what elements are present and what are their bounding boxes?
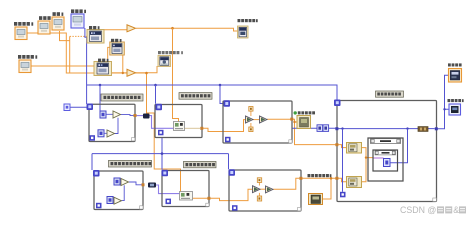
node after F1 bbox=[143, 114, 150, 119]
wire: F6 right tunnel to indicators bbox=[437, 75, 449, 129]
tunnel F6 left blue bbox=[335, 127, 338, 130]
F5 constant 1 bbox=[257, 178, 261, 183]
wire: triangle T2 to metronome bbox=[136, 66, 158, 73]
frame F6 corner notch bbox=[433, 198, 437, 201]
frame F2b corner notch bbox=[289, 140, 292, 143]
inner blue icon terminal bbox=[384, 159, 391, 167]
brown coercion node on F6 bus bbox=[418, 127, 428, 132]
iteration box F5 bbox=[232, 205, 238, 211]
label 数值3 bbox=[53, 12, 64, 16]
F3 triangle 2 bbox=[114, 197, 122, 204]
wire: F2b blue out to conversion pair bbox=[292, 127, 337, 129]
tunnel F6 left orange 2 bbox=[335, 177, 338, 180]
tunnel F3 right bbox=[142, 183, 145, 186]
label 明日输入3 bbox=[14, 22, 33, 26]
wire: blue ctl drop and long selector bus bbox=[85, 28, 337, 104]
F5 triangle 2 bbox=[266, 186, 274, 193]
icon3 仿真 express icon bbox=[94, 62, 112, 76]
wire: F2b triangle link bbox=[253, 119, 260, 121]
label 轮盘4 bbox=[89, 26, 100, 29]
wire: F6 left tunnel to icon A bbox=[337, 145, 347, 148]
ctl 明日输入4 bbox=[19, 60, 31, 73]
label 实时电量 bbox=[448, 63, 462, 66]
ctl 明日输入3 bbox=[15, 27, 27, 40]
triangle T1 bbox=[127, 25, 136, 32]
tunnel F6 right blue bbox=[435, 127, 438, 130]
F1 terminal 2 bbox=[98, 130, 104, 137]
wire: inner case blue out up to bus bbox=[390, 129, 408, 163]
selector F5 bbox=[229, 169, 236, 176]
express icon in F4 bbox=[180, 192, 193, 201]
tunnel F1 right bbox=[134, 114, 137, 117]
F5 constant 2 bbox=[257, 196, 261, 201]
selector F2b bbox=[224, 100, 231, 107]
F1 interior wires bbox=[106, 114, 134, 115]
iteration box F2 bbox=[158, 130, 164, 136]
inner frame A selector band bbox=[371, 139, 401, 144]
wire: blue drop to F2 selector bbox=[155, 85, 157, 104]
wire: F2b output down into frame F6 bbox=[267, 119, 337, 144]
icon1 轮盘 express icon bbox=[87, 30, 104, 44]
F1 triangle 2 bbox=[107, 130, 115, 137]
conversion pair node bbox=[317, 125, 329, 132]
wire: icon A and icon B outputs merge bbox=[362, 148, 374, 182]
selector F1 bbox=[87, 104, 94, 111]
label 累计用电量2 bbox=[448, 99, 464, 102]
tunnel F2 right bbox=[200, 127, 203, 130]
wire: violet F3 output through node into F4 bbox=[156, 185, 180, 194]
svg-text:&: & bbox=[453, 205, 459, 215]
label metronome bbox=[158, 51, 183, 54]
wire: F2 tunnel to frame F2b triangles bbox=[202, 120, 246, 132]
label 明日输入4 bbox=[18, 55, 37, 59]
time icon 0点清零 bbox=[238, 26, 249, 38]
wire: F2b constant links bbox=[250, 111, 252, 127]
tunnel F5 right bbox=[299, 177, 302, 180]
label 运行时间3 bbox=[71, 9, 86, 13]
F5 triangle 1 bbox=[253, 186, 261, 193]
boolean constant feeding F1 selector bbox=[64, 104, 70, 111]
selector F4 bbox=[162, 170, 169, 177]
ctl 采样率2 bbox=[38, 21, 50, 34]
wire: drop from time wire into frame F2 express icon bbox=[173, 28, 179, 121]
iteration box F1 bbox=[90, 135, 96, 141]
frame F5 corner notch bbox=[298, 208, 301, 211]
wire: violet F1 output through node into F2 bbox=[137, 116, 174, 129]
label icon3 bbox=[98, 59, 109, 62]
svg-text:CSDN @: CSDN @ bbox=[400, 205, 436, 215]
F2b constant 1 bbox=[249, 107, 253, 112]
label time icon bbox=[238, 19, 258, 22]
selector F6 bbox=[334, 100, 341, 107]
F2b triangle 2 bbox=[260, 116, 268, 123]
F3 interior wires bbox=[129, 182, 142, 185]
indicator 累计用电量2 (blue, right) bbox=[449, 104, 461, 115]
wire: frame F5 output into F6 and down to icon5b bbox=[301, 178, 337, 199]
iteration box F6 bbox=[340, 192, 346, 198]
wire: F5 triangle2 to right tunnel bbox=[273, 178, 299, 189]
wire: second selector bus row2 bbox=[92, 138, 229, 171]
wire: express F2 output to tunnel bbox=[185, 127, 201, 129]
wire: triangle T1 to time icon bbox=[136, 28, 238, 31]
inner frame B bbox=[373, 150, 398, 171]
F3 triangle 1 bbox=[121, 179, 129, 186]
iteration box F3 bbox=[96, 203, 102, 209]
wire: boolean const to F1 selector bbox=[70, 106, 87, 108]
selector F2 bbox=[156, 104, 163, 111]
banner1 判断第一二次数值的大小 bbox=[101, 94, 143, 101]
wire: blue drop to F2b selector bbox=[220, 85, 224, 104]
wire: F5 triangle link bbox=[260, 188, 266, 190]
F2b triangle 1 bbox=[246, 116, 254, 123]
wire: blue drop into F1 terminal bbox=[99, 85, 101, 111]
tunnel F6 left orange 1 bbox=[335, 143, 338, 146]
wire: blue across frame F6 bbox=[337, 128, 435, 130]
wire: ctl 明日输入3 down long bus bbox=[27, 33, 147, 73]
frame F4 corner notch bbox=[206, 203, 209, 206]
wire: violet inner frame feed bbox=[374, 157, 384, 159]
frame F5 case structure bbox=[229, 170, 301, 211]
LED indicator icon bbox=[297, 116, 311, 129]
junction dot on time wire bbox=[171, 27, 174, 30]
wire: icon2 fed from y73 bus bbox=[108, 47, 110, 73]
wire: long orange drop into frame F4 bbox=[147, 73, 181, 192]
banner3 bbox=[109, 160, 152, 167]
F6 icon B bbox=[347, 177, 362, 188]
F1 triangle 1 bbox=[113, 111, 121, 118]
wire: ctl 数值3 drop and jog bbox=[60, 31, 70, 73]
tunnel F2b right bbox=[290, 118, 293, 121]
label 第N-1天用电量2 bbox=[308, 174, 332, 177]
frame F2b case structure bbox=[223, 101, 292, 143]
F2b constant 2 bbox=[249, 127, 253, 132]
indicator 实时电量 (orange, top right) bbox=[449, 69, 462, 83]
wire: ctl 明日输入4 to icon3 bbox=[31, 65, 94, 67]
banner2 bbox=[179, 93, 212, 100]
icon2 数组 express icon bbox=[110, 42, 125, 55]
node after F3 bbox=[148, 183, 156, 188]
iteration box F4 bbox=[166, 199, 172, 205]
wire: express F4 output to frame F5 triangles bbox=[193, 189, 253, 200]
frame F6 case structure bbox=[337, 101, 437, 202]
frame F4 case structure bbox=[162, 171, 209, 207]
inner frame A bbox=[368, 138, 403, 181]
inner frame B selector band bbox=[375, 151, 396, 155]
iteration box F2b bbox=[225, 137, 231, 143]
ctl 数值3 bbox=[52, 17, 64, 30]
metronome wait icon bbox=[158, 56, 171, 67]
ctl blue 运行时间3 bbox=[71, 14, 84, 28]
icon5b 用电量 indicator bbox=[309, 194, 323, 205]
label 采样率2 bbox=[39, 16, 51, 20]
express icon in F2 bbox=[174, 122, 185, 131]
selector F3 bbox=[93, 170, 100, 177]
frame F2 case structure bbox=[155, 105, 202, 138]
wire: icon2 output down joining bus bbox=[122, 55, 124, 73]
frame F1 corner notch bbox=[132, 138, 135, 141]
wire: dashed feed into icon1 bbox=[70, 35, 87, 37]
wire: F6 left tunnel to icon B bbox=[337, 178, 347, 182]
label icon2 bbox=[111, 39, 122, 42]
frame F3 case structure bbox=[94, 171, 143, 210]
F3 terminal 1 bbox=[114, 178, 120, 185]
wire: F5 constant links bbox=[258, 182, 260, 196]
wire: icon3 to triangle T2 bbox=[112, 72, 128, 74]
F1 terminal 1 bbox=[100, 111, 106, 118]
banner6 bbox=[376, 91, 404, 97]
label LED 数值判断指示灯 bbox=[294, 111, 316, 114]
wire: icon1 to triangle T1 bbox=[104, 29, 127, 31]
F3 terminal 2 bbox=[107, 197, 113, 204]
tunnel F4 right bbox=[207, 197, 210, 200]
banner4 bbox=[184, 161, 217, 167]
F6 icon A bbox=[347, 143, 362, 154]
frame F1 case structure bbox=[89, 104, 135, 141]
wire: stub to LED icon bbox=[295, 121, 298, 123]
wire: blue drop to F6 iteration box bbox=[342, 129, 344, 192]
watermark CSDN bbox=[400, 205, 466, 215]
triangle T2 bbox=[127, 69, 136, 76]
frame F3 corner notch bbox=[140, 206, 143, 209]
